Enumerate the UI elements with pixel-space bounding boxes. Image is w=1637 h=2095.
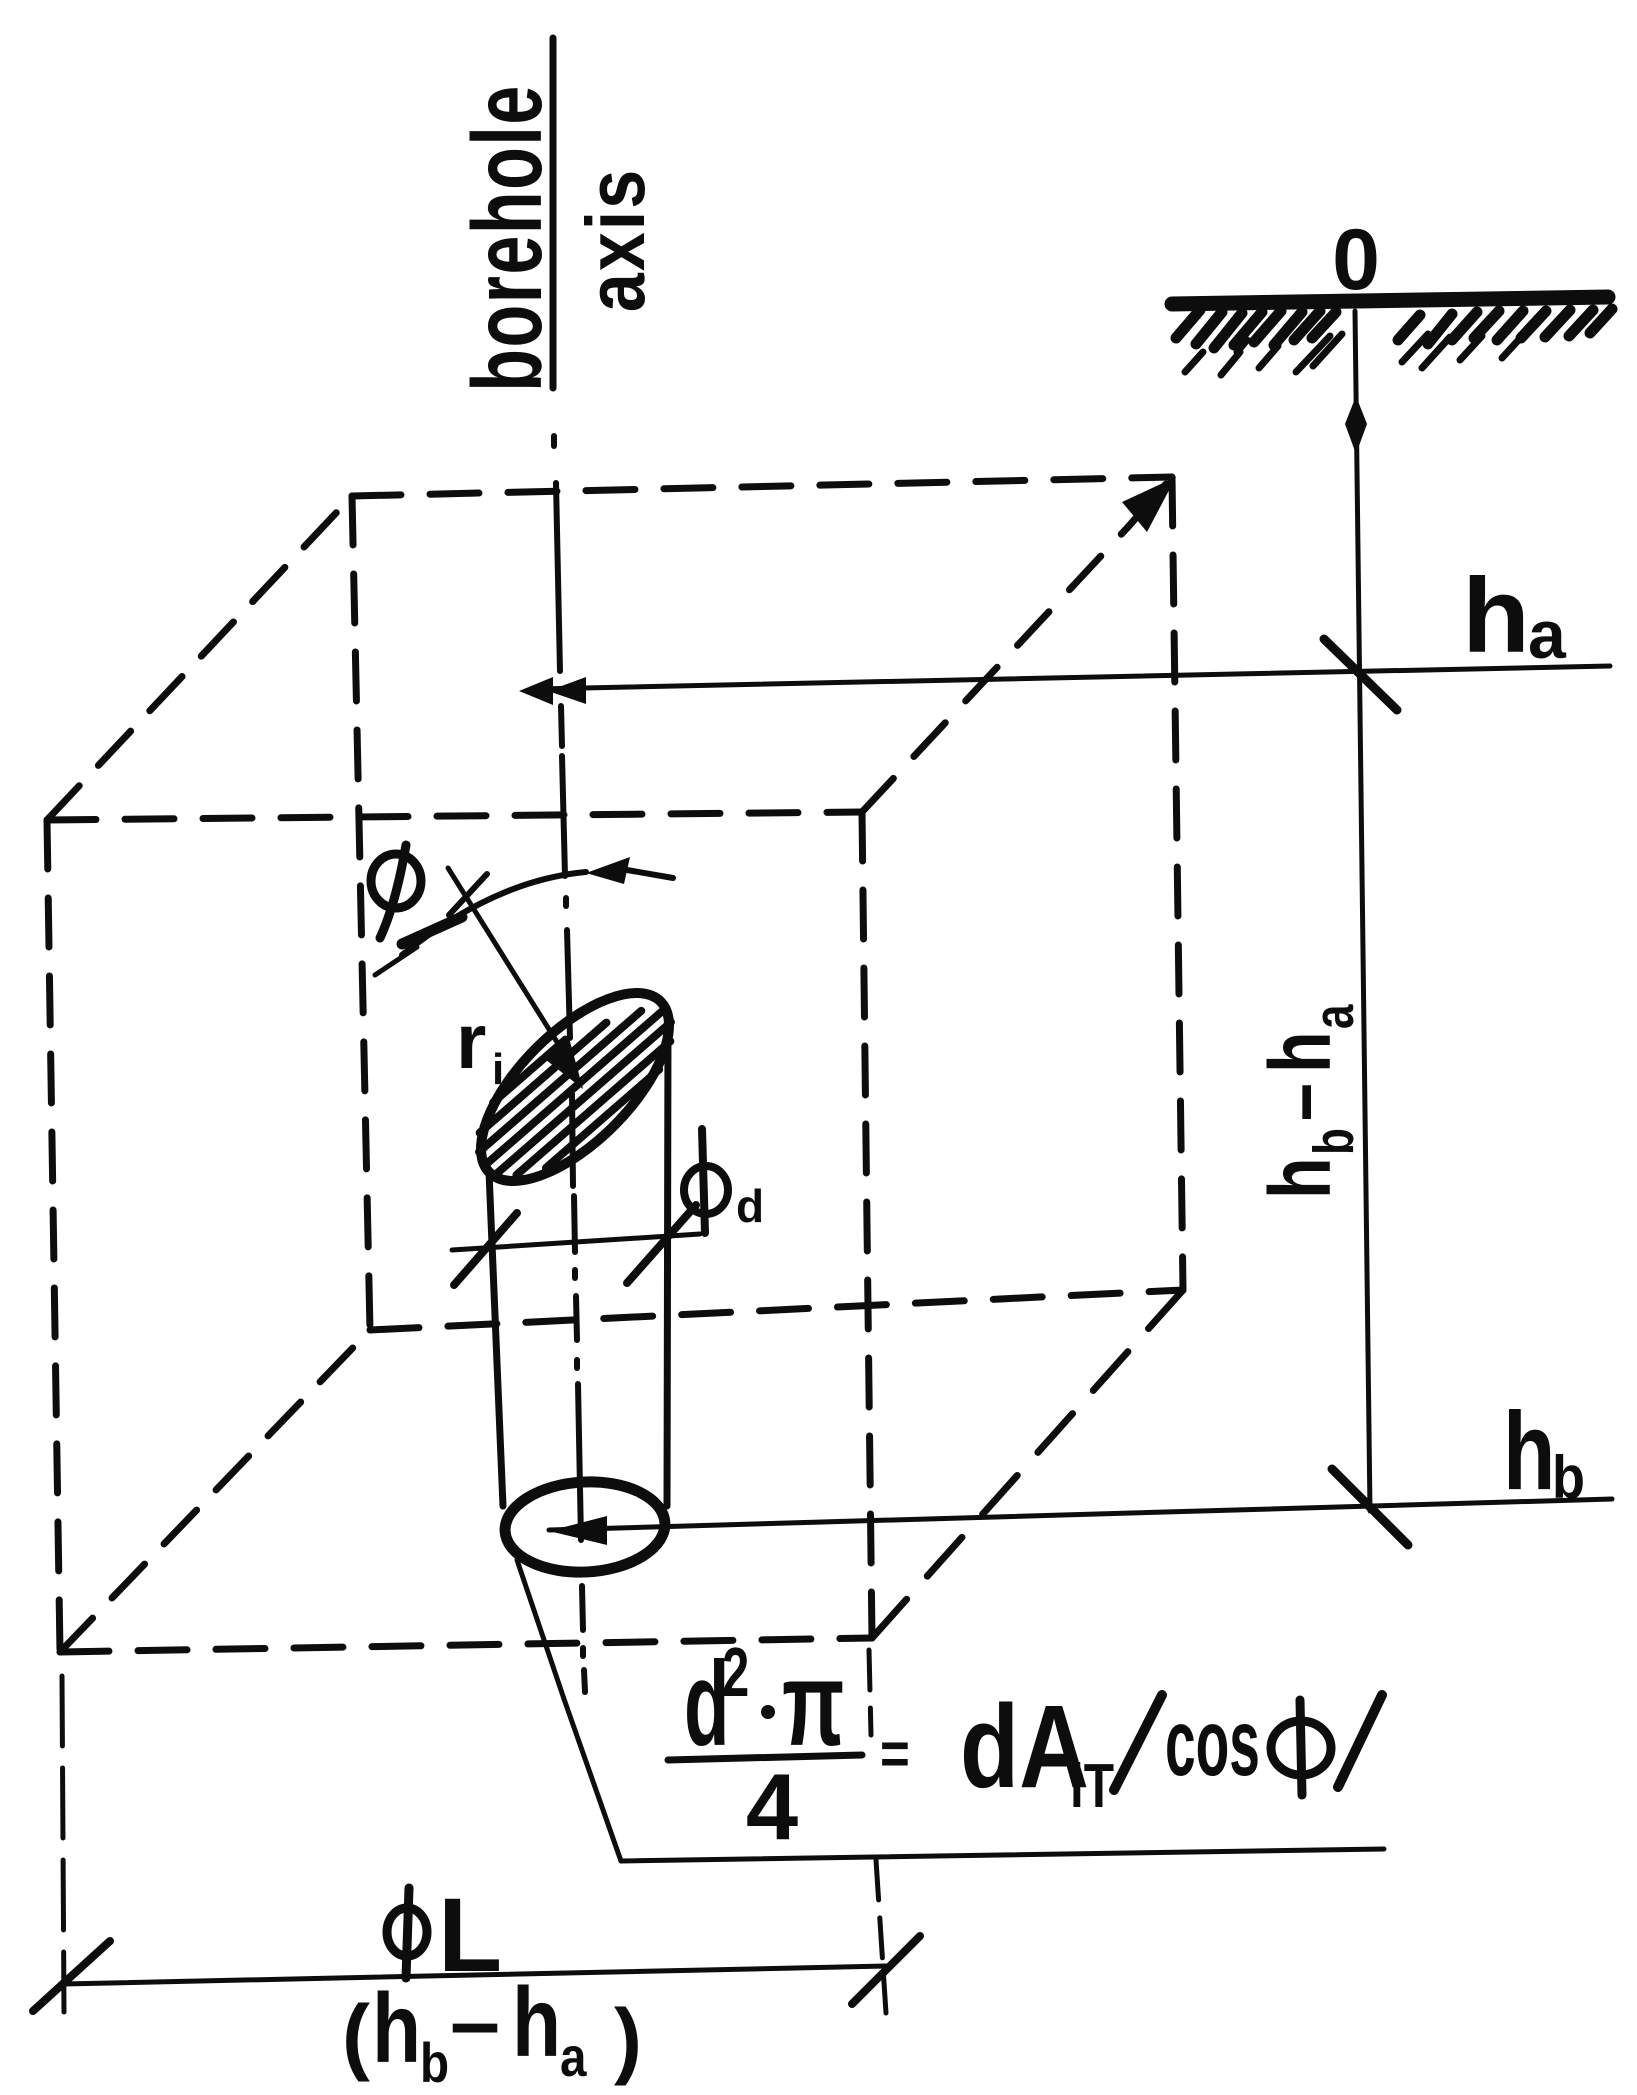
- svg-text:i: i: [492, 1045, 504, 1094]
- svg-text:h: h: [1503, 1390, 1555, 1513]
- phi L extension line right upper: [869, 1650, 871, 1735]
- angle phi glyph: [371, 845, 421, 938]
- phi_d tick left: [454, 1213, 517, 1285]
- phi L tick right: [852, 1936, 920, 2004]
- fraction bar: [668, 1755, 862, 1760]
- downward arrow on depth line: [1345, 396, 1367, 454]
- svg-text:axis: axis: [571, 168, 663, 312]
- cube edge: vertical front-left: [47, 820, 60, 1652]
- svg-text:b: b: [1302, 1128, 1366, 1155]
- cylinder top ellipse (hatched): [450, 962, 700, 1212]
- phi_d dimension line: [452, 1234, 700, 1250]
- svg-text:(: (: [342, 1988, 370, 2082]
- phi L extension line left: [62, 1676, 64, 2012]
- cube edge: top back: [352, 477, 1172, 496]
- svg-text:b: b: [1552, 1444, 1585, 1511]
- cylinder bottom ellipse: [503, 1478, 667, 1576]
- svg-text:h: h: [1251, 1157, 1349, 1199]
- svg-text:b: b: [420, 2032, 449, 2094]
- tick on r_i line: [449, 874, 487, 915]
- svg-text:borehole: borehole: [454, 84, 563, 392]
- label h_b - h_a (rotated): [1251, 1004, 1365, 1199]
- svg-text:–: –: [450, 1972, 500, 2072]
- tick at h_a: [1324, 639, 1397, 710]
- label phi_d: [684, 1129, 728, 1233]
- cylinder right side: [667, 1024, 668, 1506]
- borehole axis solid line (separator of labels): [550, 38, 557, 388]
- cube edge: vertical front-right: [862, 812, 872, 1638]
- svg-text:π: π: [782, 1636, 844, 1770]
- svg-text:): ): [614, 1992, 642, 2086]
- svg-text:h: h: [372, 1973, 421, 2082]
- label phi L: [387, 1888, 427, 1978]
- svg-text:iT: iT: [1070, 1751, 1114, 1821]
- phi L extension line right lower: [876, 1860, 886, 2013]
- svg-text:h: h: [1462, 557, 1530, 675]
- svg-text:r: r: [456, 997, 486, 1085]
- borehole axis centerline (dash-dot): [554, 436, 585, 1692]
- h_b arrow at bottom ellipse centre: [549, 1516, 607, 1545]
- cube edge: vertical back-right: [1172, 477, 1183, 1290]
- svg-text:4: 4: [746, 1754, 798, 1859]
- cube edge: bottom-left depth diagonal: [60, 1330, 370, 1652]
- svg-text:d: d: [736, 1180, 764, 1232]
- svg-text:a: a: [560, 2026, 587, 2088]
- arc start thick blob: [402, 917, 462, 944]
- cylinder left side: [489, 1172, 503, 1506]
- cube edge: bottom back: [370, 1290, 1183, 1330]
- ground surface line: [1172, 297, 1608, 304]
- phi L tick left: [33, 1941, 110, 2011]
- h_a arrow at borehole axis: [519, 677, 553, 705]
- cube edge: bottom front: [60, 1638, 872, 1652]
- cube edge: bottom-right depth diagonal: [872, 1290, 1183, 1638]
- phi_d tick right: [627, 1205, 696, 1283]
- phi L dimension line: [63, 1966, 886, 1984]
- svg-text:a: a: [1302, 1004, 1366, 1029]
- tick at h_b: [1332, 1469, 1408, 1545]
- ground hatching: [1176, 309, 1612, 348]
- cube edge: top-right depth diagonal: [862, 527, 1128, 812]
- r_i arrowhead at ellipse centre: [541, 1038, 583, 1089]
- h_a dimension line: [537, 666, 1610, 689]
- svg-text:2: 2: [722, 1632, 749, 1711]
- svg-text:cos: cos: [1165, 1691, 1260, 1796]
- svg-text:a: a: [1528, 597, 1567, 673]
- arc tail line: [627, 870, 673, 878]
- arrowhead at arc end: [586, 857, 630, 884]
- svg-text:h: h: [512, 1967, 561, 2076]
- cube edge: top-left depth diagonal: [47, 496, 352, 820]
- arrow at top-right cube corner: [1128, 484, 1166, 527]
- svg-text:0: 0: [1332, 212, 1380, 308]
- angle arc: [402, 872, 586, 955]
- svg-text:h: h: [1251, 1031, 1349, 1073]
- svg-text:–: –: [1251, 1083, 1349, 1121]
- /cos phi /: [1114, 1695, 1162, 1790]
- vertical depth dimension line from ground: [1355, 311, 1370, 1511]
- formula underline: [621, 1849, 1384, 1861]
- svg-text:=: =: [880, 1720, 910, 1787]
- leader line from bottom ellipse to formula: [517, 1560, 621, 1861]
- cube edge: top front: [47, 812, 862, 820]
- stray stroke below phi: [375, 947, 417, 975]
- r_i arrow line: [448, 868, 567, 1058]
- h_b dimension line: [549, 1499, 1612, 1530]
- cube edge: vertical back-left: [352, 496, 370, 1330]
